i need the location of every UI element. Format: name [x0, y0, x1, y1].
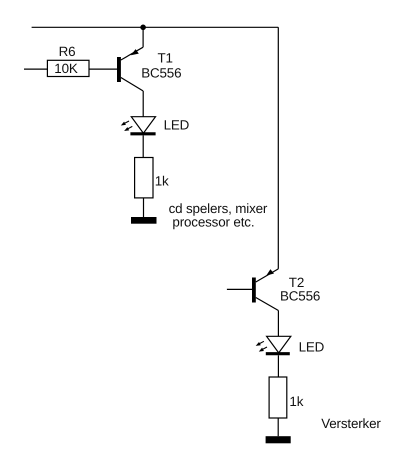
wire: vertical feed from rail down to T2 emitter — [277, 27, 279, 269]
resistor 1k (upper) body — [135, 158, 153, 198]
wire: D2 cathode to 1k resistor — [277, 355, 279, 377]
wire: T2 base lead — [227, 288, 252, 290]
transistor T1 base bar — [117, 57, 121, 82]
ground symbol (upper, cd spelers side) — [131, 217, 157, 224]
transistor T1 emitter arrow (PNP, points to base) — [131, 49, 139, 55]
svg-text:T1: T1 — [158, 51, 173, 66]
svg-text:Versterker: Versterker — [321, 416, 381, 431]
LED D1 light arrow 1 head — [121, 122, 126, 126]
LED D1 light arrow 2 head — [124, 127, 129, 131]
LED D2 light arrow 2 head — [259, 348, 264, 352]
svg-text:processor etc.: processor etc. — [172, 214, 254, 229]
wire: 1k to ground (lower) — [277, 418, 279, 436]
svg-text:BC556: BC556 — [280, 289, 320, 304]
LED D2 light arrow 1 shaft — [258, 341, 264, 344]
wire: T1 collector down to LED D1 — [142, 91, 144, 117]
wire: D1 cathode to 1k resistor — [142, 135, 144, 157]
transistor T1 collector wire (diagonal) — [121, 78, 143, 92]
resistor 1k (lower) body — [269, 377, 287, 418]
transistor T2 base bar — [252, 278, 256, 303]
transistor T2 emitter arrow (PNP, points to base) — [266, 269, 274, 275]
svg-text:BC556: BC556 — [141, 66, 181, 81]
svg-text:1k: 1k — [155, 174, 169, 189]
LED D2 cathode bar — [266, 352, 290, 355]
wire: R6 to T1 base — [89, 68, 117, 70]
LED D2 triangle — [267, 336, 291, 353]
LED D1 cathode bar — [130, 132, 155, 135]
svg-text:1k: 1k — [289, 394, 303, 409]
svg-text:LED: LED — [164, 117, 190, 132]
LED D2 light arrow 1 head — [256, 342, 261, 346]
wire: top positive supply rail — [32, 26, 279, 28]
svg-text:LED: LED — [299, 339, 325, 354]
wire: 1k to ground (upper) — [143, 198, 145, 217]
transistor T2 collector wire (diagonal) — [256, 298, 279, 311]
ground symbol (lower, versterker side) — [266, 436, 291, 443]
transistor T1 emitter wire (vertical from rail) — [142, 27, 144, 47]
wire: T2 collector down to LED D2 — [277, 311, 279, 337]
LED D1 light arrow 2 shaft — [126, 126, 132, 129]
wire: T2 emitter diagonal from vertical feed — [256, 269, 278, 282]
transistor T1 emitter wire (diagonal to base bar) — [121, 47, 143, 60]
LED D1 triangle — [131, 117, 155, 134]
wire: input lead to R6 — [24, 68, 47, 70]
LED D1 light arrow 1 shaft — [123, 121, 129, 124]
LED D2 light arrow 2 shaft — [261, 347, 267, 350]
svg-text:R6: R6 — [59, 44, 76, 59]
node: junction dot where T1 emitter taps the rail — [140, 25, 146, 31]
svg-text:10K: 10K — [54, 61, 78, 76]
resistor R6 body — [47, 60, 89, 76]
